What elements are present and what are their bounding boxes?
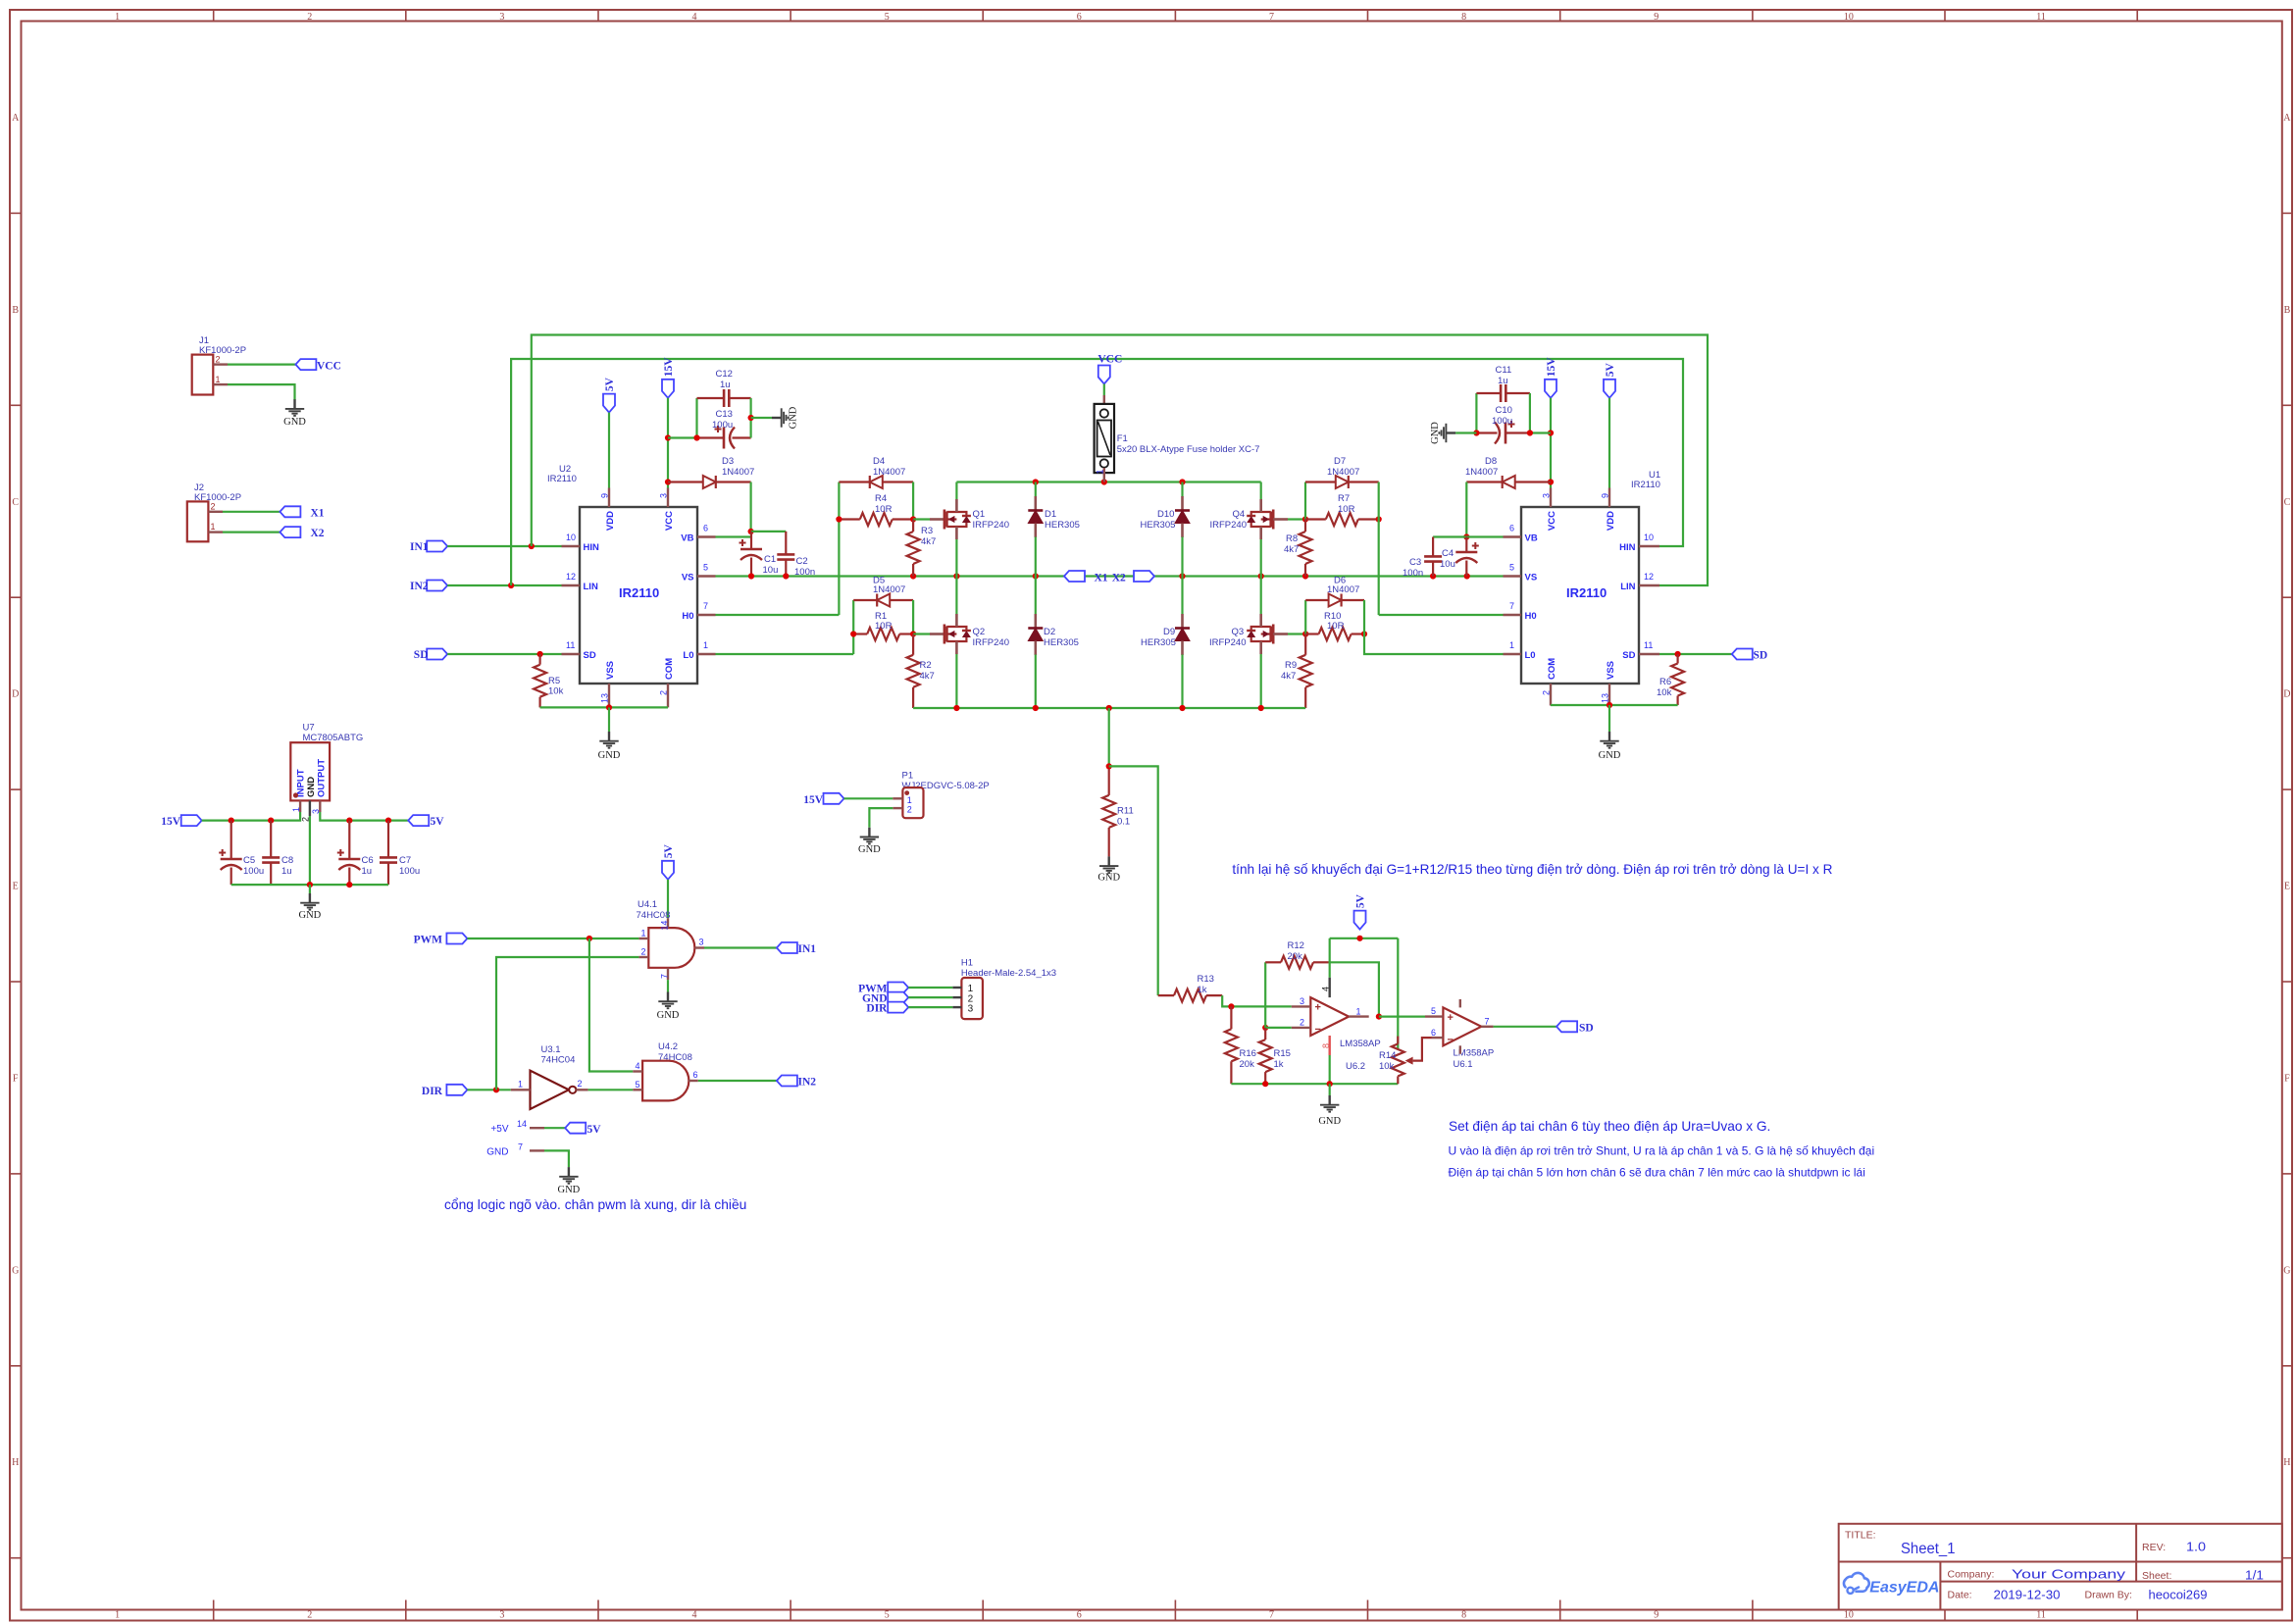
svg-text:U3.1: U3.1 — [541, 1044, 561, 1055]
svg-text:H: H — [2283, 1457, 2290, 1468]
wire D3 to VB node — [749, 482, 751, 532]
ground GND under U2 — [599, 732, 618, 748]
svg-text:15V: 15V — [161, 816, 181, 828]
svg-text:U vào là điện áp rơi trên trở: U vào là điện áp rơi trên trở Shunt, U r… — [1449, 1144, 1875, 1158]
svg-text:C13: C13 — [716, 409, 733, 420]
svg-text:1: 1 — [291, 807, 301, 812]
wire vertical H0 ladder left — [838, 482, 840, 616]
junction R7 right — [1376, 516, 1382, 522]
svg-text:2: 2 — [578, 1079, 583, 1089]
wire R10 to L0 U1 — [1364, 600, 1504, 654]
svg-text:EasyEDA: EasyEDA — [1869, 1579, 1939, 1596]
svg-text:+: + — [1315, 1002, 1321, 1014]
svg-text:R12: R12 — [1288, 940, 1304, 951]
svg-text:VB: VB — [681, 533, 693, 544]
svg-text:3: 3 — [1542, 493, 1552, 498]
svg-text:VS: VS — [1525, 573, 1538, 583]
ground GND under gate power row — [559, 1167, 578, 1184]
svg-text:A: A — [2283, 113, 2291, 124]
svg-text:Sheet_1: Sheet_1 — [1901, 1541, 1956, 1557]
pin 6 VB of U1 — [1504, 535, 1522, 537]
svg-text:L0: L0 — [683, 650, 693, 661]
svg-text:2: 2 — [1300, 1018, 1304, 1028]
svg-text:10R: 10R — [875, 621, 893, 632]
resistor R15 1k — [1264, 1028, 1266, 1040]
svg-text:20k: 20k — [1288, 951, 1303, 962]
wire DIR to pin2 U4.1 — [496, 957, 638, 1090]
svg-text:GND: GND — [1599, 750, 1621, 761]
svg-text:IN1: IN1 — [798, 943, 817, 955]
wire Q3 drain — [1260, 577, 1262, 615]
junction VB node — [748, 529, 754, 534]
net flag SD left — [427, 649, 447, 660]
capacitor C5 100u — [230, 821, 232, 859]
wire 15V to VCC U2 — [667, 398, 669, 488]
svg-text:GND: GND — [1097, 873, 1120, 884]
svg-text:D3: D3 — [722, 456, 734, 467]
svg-text:GND: GND — [598, 750, 621, 761]
svg-text:D2: D2 — [1044, 627, 1055, 637]
resistor R11 0.1 shunt — [1108, 708, 1110, 766]
connector J1 KF1000-2P — [192, 355, 214, 395]
svg-text:10k: 10k — [548, 686, 564, 697]
svg-text:C8: C8 — [281, 855, 293, 866]
svg-text:GND: GND — [283, 417, 306, 428]
wire to GND right of C13 — [751, 417, 772, 419]
junction C13/GND branch — [693, 434, 699, 440]
svg-text:GND: GND — [306, 777, 317, 797]
svg-text:5x20 BLX-Atype Fuse holder XC-: 5x20 BLX-Atype Fuse holder XC-7 — [1117, 444, 1260, 455]
diode D5 1N4007 — [890, 599, 913, 601]
svg-text:VCC: VCC — [1097, 354, 1122, 366]
wire GND to H1 pin2 — [908, 996, 952, 998]
wire output U6.1 to SD flag — [1494, 1026, 1557, 1028]
svg-text:100u: 100u — [243, 866, 264, 877]
svg-text:H1: H1 — [961, 958, 973, 969]
ground GND under U4.1 — [658, 992, 677, 1009]
svg-text:13: 13 — [1601, 693, 1610, 703]
wire gate to Q2 — [913, 633, 930, 634]
svg-text:HER305: HER305 — [1141, 520, 1176, 531]
wire U7 gnd down — [309, 885, 311, 893]
svg-text:D10: D10 — [1157, 509, 1174, 520]
wire pin6 to IN2 flag — [698, 1080, 777, 1082]
capacitor C4 10u — [1465, 537, 1467, 553]
pin 5 of U4.2 — [633, 1089, 642, 1090]
svg-text:VDD: VDD — [1606, 511, 1616, 531]
svg-text:VSS: VSS — [605, 661, 616, 680]
svg-text:7: 7 — [1509, 601, 1514, 611]
pin 6 VB of U2 — [697, 535, 716, 537]
svg-text:1.0: 1.0 — [2186, 1540, 2206, 1554]
net flag DIR — [446, 1085, 467, 1095]
svg-text:Drawn By:: Drawn By: — [2085, 1590, 2132, 1601]
wire H0 U2 to gate ladder — [716, 614, 840, 616]
pin 3 VCC of U2 — [667, 488, 669, 508]
svg-text:IR2110: IR2110 — [1631, 480, 1660, 490]
svg-text:74HC08: 74HC08 — [637, 910, 671, 921]
wire D4-R4 right vertical — [912, 482, 914, 520]
svg-text:5V: 5V — [663, 844, 675, 859]
wire shunt tap to opamp — [1109, 766, 1158, 995]
svg-text:11: 11 — [2036, 1610, 2046, 1621]
svg-text:F: F — [13, 1074, 19, 1085]
pin 11 SD of U1 — [1639, 653, 1659, 655]
svg-text:2: 2 — [307, 1610, 312, 1621]
wire DIR to H1 pin3 — [908, 1006, 952, 1008]
svg-text:C3: C3 — [1409, 557, 1421, 568]
potentiometer R14 10k — [1397, 938, 1399, 1050]
svg-text:VSS: VSS — [1606, 661, 1616, 680]
resistor R3 4k7 — [912, 520, 914, 533]
svg-text:B: B — [12, 305, 19, 316]
resistor R13 1k — [1158, 994, 1174, 996]
svg-text:D: D — [2283, 689, 2290, 700]
wire PWM to pin1 — [467, 938, 638, 939]
svg-text:20k: 20k — [1240, 1059, 1255, 1070]
svg-text:R11: R11 — [1117, 806, 1134, 817]
wire Q1 drain — [955, 482, 957, 500]
svg-text:10u: 10u — [763, 565, 779, 576]
svg-text:1k: 1k — [1198, 985, 1207, 995]
svg-text:3: 3 — [968, 1004, 974, 1015]
svg-text:R14: R14 — [1379, 1050, 1396, 1061]
svg-text:VDD: VDD — [605, 511, 616, 531]
svg-text:7: 7 — [659, 974, 669, 979]
pin 7 of U4.1 — [667, 968, 669, 980]
svg-text:C10: C10 — [1496, 405, 1512, 416]
svg-text:5V: 5V — [1605, 363, 1616, 378]
net flag SD at opamp — [1556, 1021, 1577, 1032]
svg-text:6: 6 — [1077, 1610, 1082, 1621]
junction minus node — [1262, 1025, 1268, 1031]
resistor R2 4k7 — [912, 634, 914, 655]
IC U2 IR2110 body — [580, 507, 697, 684]
wire C10 row to 15V — [1530, 431, 1551, 433]
svg-text:5: 5 — [703, 563, 708, 573]
svg-text:8: 8 — [1461, 12, 1466, 23]
pin 2 of U4.1 — [638, 956, 648, 958]
svg-text:8: 8 — [1461, 1610, 1466, 1621]
svg-text:E: E — [13, 882, 19, 892]
capacitor C7 100u — [387, 821, 389, 858]
svg-text:R13: R13 — [1198, 974, 1214, 985]
svg-text:1k: 1k — [1274, 1059, 1284, 1070]
wire D8 to VB node U1 — [1465, 482, 1467, 537]
svg-text:−: − — [1315, 1024, 1321, 1036]
wire cross-coupling HIN U2 to LIN U1 (top) — [532, 335, 1708, 586]
wire gate to Q1 — [913, 518, 930, 520]
svg-text:5: 5 — [885, 1610, 890, 1621]
svg-text:R16: R16 — [1240, 1048, 1256, 1059]
wire Q4 source — [1260, 539, 1262, 577]
svg-text:14: 14 — [659, 921, 669, 931]
pin 1 of U4.1 — [638, 938, 648, 939]
svg-text:SD: SD — [584, 650, 596, 661]
svg-text:DIR: DIR — [422, 1086, 443, 1097]
svg-text:1: 1 — [216, 375, 221, 384]
resistor R6 10k — [1676, 654, 1678, 664]
resistor R9 4k7 — [1304, 634, 1306, 655]
svg-text:X2: X2 — [1112, 572, 1126, 583]
wire VB pin U1 — [1466, 535, 1503, 537]
wire R12 to output — [1329, 962, 1379, 1016]
wire VS rail X1X2 — [716, 575, 1504, 577]
svg-text:1: 1 — [211, 522, 216, 532]
wire output to pin5 U6.1 — [1379, 1015, 1425, 1017]
svg-text:8: 8 — [1321, 1043, 1331, 1048]
wire 5V to VDD U1 — [1608, 398, 1610, 488]
wire pin7 to ground — [667, 980, 669, 991]
diode D3 1N4007 — [668, 481, 703, 482]
ground GND under U1 — [1600, 732, 1618, 748]
svg-text:10R: 10R — [1327, 621, 1345, 632]
wire IN2 to LIN — [447, 584, 561, 586]
svg-text:HIN: HIN — [1619, 542, 1636, 553]
pin 3 VCC of U1 — [1550, 488, 1552, 508]
capacitor C12 1u — [695, 398, 697, 438]
wire VCC to F1 — [1103, 384, 1105, 396]
svg-text:C2: C2 — [796, 556, 808, 567]
svg-text:100n: 100n — [1403, 568, 1423, 579]
junction output node — [1376, 1014, 1382, 1020]
svg-text:SD: SD — [414, 649, 429, 661]
wire Q1 source — [955, 539, 957, 577]
svg-text:4k7: 4k7 — [1281, 671, 1296, 682]
pin 11 SD of U2 — [562, 653, 581, 655]
junction VSS bus U1 — [1607, 702, 1612, 708]
svg-text:LIN: LIN — [584, 582, 598, 592]
ground GND at J1 — [285, 399, 304, 416]
svg-text:GND: GND — [1430, 422, 1441, 444]
power stubs U6.1 — [1459, 999, 1461, 1007]
svg-text:R7: R7 — [1338, 493, 1350, 504]
ground GND left of C10 — [1439, 424, 1455, 442]
svg-text:IR2110: IR2110 — [619, 585, 659, 600]
power flag 15V above U1 — [1545, 380, 1556, 398]
svg-text:10R: 10R — [1338, 504, 1355, 515]
junction Q3 gate node — [1302, 631, 1308, 636]
svg-text:SD: SD — [1622, 650, 1635, 661]
svg-text:4: 4 — [692, 1610, 697, 1621]
junction Q4 gate node — [1302, 516, 1308, 522]
pin 7 of U6.1 — [1481, 1026, 1493, 1028]
svg-text:IN2: IN2 — [798, 1077, 817, 1089]
junction IN2/LIN — [508, 583, 514, 588]
junction VB node U1 — [1463, 533, 1469, 539]
net flag IN1 — [427, 541, 447, 552]
svg-text:Q2: Q2 — [973, 627, 986, 637]
diode D4 1N4007 — [883, 481, 913, 482]
svg-text:HER305: HER305 — [1141, 637, 1176, 648]
svg-text:C5: C5 — [243, 855, 255, 866]
wire inverter out to pin5 — [588, 1089, 634, 1090]
pin 7 H0 of U2 — [697, 614, 716, 616]
pin 6 of U4.2 — [689, 1080, 698, 1082]
svg-text:F1: F1 — [1117, 433, 1128, 444]
wire capacitor ground bus U7 — [231, 884, 388, 886]
power flag 5V above U2 — [603, 394, 615, 413]
pin 10 HIN of U2 — [562, 545, 581, 547]
wire VB pin to C1 — [716, 535, 752, 537]
pin 1 L0 of U2 — [697, 653, 716, 655]
net flag 5V at U7 — [408, 815, 429, 826]
svg-text:L0: L0 — [1525, 650, 1536, 661]
svg-text:G: G — [2283, 1265, 2290, 1276]
resistor R12 20k feedback — [1264, 962, 1266, 1028]
svg-text:tính lại hệ số khuyếch đại G=1: tính lại hệ số khuyếch đại G=1+R12/R15 t… — [1232, 862, 1832, 877]
wire vertical L0 ladder — [852, 600, 854, 654]
svg-text:D: D — [12, 689, 19, 700]
pin 2 of U3.1 — [576, 1089, 587, 1090]
wire PWM to H1 pin1 — [908, 987, 952, 989]
ground GND under R11 — [1099, 856, 1118, 873]
svg-text:4k7: 4k7 — [1284, 544, 1299, 555]
resistor R7 10R — [1305, 518, 1326, 520]
pin 12 LIN of U2 — [562, 584, 581, 586]
svg-text:SD: SD — [1579, 1022, 1594, 1034]
svg-text:Sheet:: Sheet: — [2142, 1570, 2171, 1582]
capacitor C2 100n — [785, 532, 787, 555]
svg-text:11: 11 — [1644, 640, 1653, 650]
wire opamp ground rail — [1231, 1083, 1398, 1085]
svg-text:2: 2 — [301, 817, 311, 822]
wire VSS COM ground bus of U2 — [540, 706, 668, 708]
ground GND under U7 — [300, 893, 319, 910]
ground GND right of C13 — [772, 408, 789, 427]
svg-text:1: 1 — [1356, 1007, 1361, 1017]
svg-text:VCC: VCC — [1547, 511, 1557, 531]
svg-text:C1: C1 — [764, 554, 776, 565]
capacitor C1 10u — [750, 532, 752, 549]
svg-text:+5V: +5V — [490, 1124, 508, 1135]
wire C13 row — [668, 436, 697, 438]
pin 1 of U3.1 — [511, 1089, 531, 1090]
wire Q2 drain — [955, 577, 957, 615]
power flag VCC at fuse — [1098, 366, 1110, 384]
svg-text:2: 2 — [307, 12, 312, 23]
svg-text:INPUT: INPUT — [296, 769, 307, 797]
pin 3 of U4.1 — [694, 946, 704, 948]
svg-text:4k7: 4k7 — [921, 536, 936, 547]
ground GND under opamp — [1329, 1084, 1331, 1095]
svg-text:10: 10 — [1844, 1610, 1854, 1621]
svg-text:1: 1 — [1509, 640, 1514, 650]
net flag X2 on rail — [1134, 571, 1154, 582]
junction SD/R5 — [537, 651, 543, 657]
pin 1 L0 of U1 — [1504, 653, 1522, 655]
pin 5 VS of U2 — [697, 575, 716, 577]
pin 7 H0 of U1 — [1504, 614, 1522, 616]
svg-text:LIN: LIN — [1620, 582, 1635, 592]
svg-text:3: 3 — [499, 12, 504, 23]
svg-text:C12: C12 — [716, 369, 733, 380]
svg-text:U6.2: U6.2 — [1346, 1061, 1365, 1072]
svg-text:2: 2 — [907, 805, 912, 815]
svg-text:COM: COM — [664, 658, 675, 680]
svg-text:HER305: HER305 — [1044, 637, 1079, 648]
svg-text:9: 9 — [1601, 493, 1610, 498]
svg-text:X1: X1 — [311, 507, 325, 519]
op-amp U6.2 LM358AP — [1310, 997, 1349, 1036]
wire R13 to plus input — [1222, 995, 1292, 1006]
wire SD U1 to flag — [1659, 653, 1732, 655]
pin 1 of U6.2 — [1349, 1015, 1369, 1017]
svg-text:H0: H0 — [682, 611, 693, 622]
svg-text:Điện áp tại chân 5 lớn hơn châ: Điện áp tại chân 5 lớn hơn chân 6 sẽ đưa… — [1449, 1166, 1865, 1180]
svg-text:1: 1 — [968, 984, 974, 994]
wire cross-coupling LIN U2 to HIN U1 — [511, 359, 1683, 585]
svg-text:KF1000-2P: KF1000-2P — [199, 345, 246, 356]
svg-text:R6: R6 — [1659, 677, 1671, 687]
capacitor C10 100u — [1505, 431, 1530, 433]
wire to GND left of C10 — [1455, 431, 1476, 433]
wire bridge source rail — [913, 707, 1305, 709]
svg-text:1N4007: 1N4007 — [873, 584, 905, 595]
svg-text:10u: 10u — [1440, 559, 1455, 570]
svg-text:1: 1 — [115, 1610, 120, 1621]
wire IN1 to HIN — [447, 545, 561, 547]
wire VSS to ground — [608, 707, 610, 732]
net flag PWM at H1 — [888, 983, 908, 993]
capacitor C13 100u — [697, 436, 725, 438]
svg-text:VCC: VCC — [664, 511, 675, 531]
R14 wiper — [1405, 1057, 1413, 1065]
svg-text:10R: 10R — [875, 504, 893, 515]
svg-text:R5: R5 — [548, 676, 560, 686]
svg-text:IRFP240: IRFP240 — [1209, 637, 1247, 648]
svg-text:100u: 100u — [712, 420, 733, 431]
svg-text:2: 2 — [1542, 690, 1552, 695]
svg-text:U6.1: U6.1 — [1454, 1059, 1473, 1070]
svg-text:D7: D7 — [1334, 456, 1346, 467]
svg-text:15V: 15V — [1546, 357, 1557, 378]
capacitor C6 1u — [348, 821, 350, 859]
wire 5V to VDD U2 — [608, 413, 610, 488]
wire 15V to U7 input — [202, 812, 300, 821]
wire D7-R7 right vertical to H0 U1 — [1378, 482, 1380, 616]
svg-text:10: 10 — [566, 533, 576, 542]
diode D6 1N4007 — [1304, 600, 1306, 634]
svg-text:MC7805ABTG: MC7805ABTG — [303, 733, 364, 743]
svg-text:11: 11 — [566, 640, 575, 650]
svg-text:C7: C7 — [399, 855, 411, 866]
net flag GND at H1 — [888, 992, 908, 1003]
svg-text:5V: 5V — [431, 816, 445, 828]
svg-text:C4: C4 — [1442, 548, 1454, 559]
svg-text:1u: 1u — [362, 866, 373, 877]
pin 10 HIN of U1 — [1639, 545, 1659, 547]
net flag X1 on rail — [1064, 571, 1085, 582]
junction R4 left — [836, 516, 842, 522]
svg-text:2: 2 — [211, 502, 216, 512]
svg-text:GND: GND — [1318, 1116, 1341, 1127]
svg-text:6: 6 — [1431, 1028, 1436, 1038]
wire VB branch to C2 — [751, 531, 787, 533]
svg-text:1: 1 — [641, 929, 646, 938]
wire U7 output to 5V — [320, 812, 408, 821]
junction 15V/C13 — [665, 434, 671, 440]
svg-text:IRFP240: IRFP240 — [1210, 520, 1248, 531]
junction plus node — [1228, 1003, 1234, 1009]
svg-text:−: − — [1448, 1035, 1454, 1046]
wire pin8 to gnd rail — [1329, 1055, 1331, 1084]
junction 5V flag — [1356, 936, 1362, 941]
resistor R16 20k — [1230, 1006, 1232, 1029]
pin 2 of U6.2 — [1292, 1027, 1311, 1029]
svg-text:100u: 100u — [1492, 416, 1512, 427]
wire minus input — [1265, 1027, 1292, 1029]
